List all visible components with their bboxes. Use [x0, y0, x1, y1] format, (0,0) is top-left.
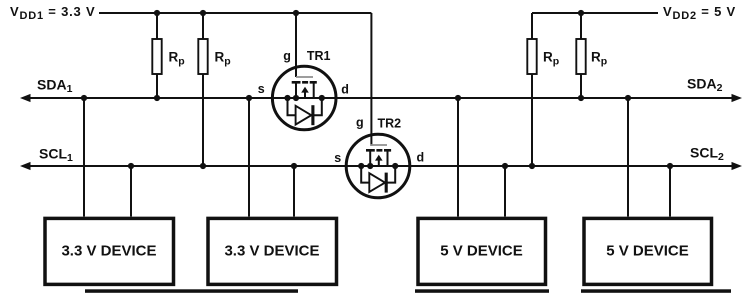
TR1 body circle — [272, 66, 336, 130]
device box 1: 3.3 V DEVICE — [45, 218, 174, 284]
svg-text:g: g — [356, 115, 364, 129]
cropped figure-edge bar A (bottom) — [85, 289, 298, 293]
junction VDD2-Rp4 — [578, 10, 584, 16]
junction Rp2-SCL1 — [200, 163, 206, 169]
junction SDA2 box3 drop — [455, 95, 461, 101]
arrow SDA2 right end — [732, 94, 743, 102]
junction SDA2 box4 drop — [625, 95, 631, 101]
wire VDD2 to Rp4 to SDA2 — [580, 13, 582, 98]
TR2 diode-right junction dot — [392, 163, 398, 169]
svg-text:d: d — [417, 151, 425, 165]
TR1 gate electrode (gray bar) — [296, 76, 313, 78]
wire VDD1 rail to TR2 gate — [370, 13, 372, 146]
TR2 body circle — [346, 134, 410, 198]
TR2 channel segments — [366, 149, 391, 152]
svg-text:TR1: TR1 — [307, 49, 331, 63]
wire VDD1 to Rp1 to SDA1 — [156, 13, 158, 98]
device box 3: 5 V DEVICE — [418, 218, 546, 284]
TR1 body-diode loop — [288, 98, 322, 115]
wire SDA1 to device box 1 — [83, 98, 85, 217]
TR1 body-diode triangle — [296, 106, 312, 125]
TR2 source tick — [369, 150, 371, 166]
wire SDA bus — [28, 97, 734, 99]
junction VDD1 TR1-gate — [293, 10, 299, 16]
TR2 body-diode cathode bar — [385, 173, 388, 193]
TR1 source tick — [295, 82, 297, 98]
resistor Rp4 — [576, 39, 585, 74]
junction SCL2 box3 drop — [502, 163, 508, 169]
junction SDA1 box1 drop — [81, 95, 87, 101]
wire SCL2 to device box 4 — [669, 166, 671, 217]
device box 2: 3.3 V DEVICE — [208, 218, 337, 284]
transistor TR1 (MOSFET, SDA level shifter) — [272, 66, 336, 130]
wire VDD1 to Rp2 to SCL1 — [202, 13, 204, 166]
TR1 source junction dot — [293, 95, 299, 101]
svg-text:TR2: TR2 — [378, 117, 402, 131]
TR2 gate electrode (gray bar) — [370, 144, 387, 146]
junction VDD1-Rp2 — [200, 10, 206, 16]
resistor Rp3 — [527, 39, 536, 74]
wire SCL1 to device box 2 — [293, 166, 295, 217]
junction Rp1-SDA1 — [154, 95, 160, 101]
TR1 drain tick — [313, 82, 315, 98]
junction VDD1-Rp1 — [154, 10, 160, 16]
device box 4: 5 V DEVICE — [584, 218, 712, 284]
wire SCL1 to device box 1 — [130, 166, 132, 217]
TR2 drain tick — [387, 150, 389, 166]
TR2 diode-left junction dot — [358, 163, 364, 169]
wire SDA1 to device box 2 — [248, 98, 250, 217]
svg-text:d: d — [341, 82, 349, 96]
junction SCL2 box4 drop — [667, 163, 673, 169]
junction SCL1 box1 drop — [128, 163, 134, 169]
svg-text:3.3 V DEVICE: 3.3 V DEVICE — [61, 243, 156, 260]
transistor TR2 (MOSFET, SCL level shifter) — [346, 134, 410, 198]
TR1 diode-left junction dot — [284, 95, 290, 101]
wire SDA2 to device box 4 — [627, 98, 629, 217]
wire SDA2 to device box 3 — [457, 98, 459, 217]
svg-text:g: g — [283, 49, 291, 63]
svg-text:3.3 V DEVICE: 3.3 V DEVICE — [224, 243, 319, 260]
TR1 body arrow (points up to channel) — [301, 87, 309, 93]
wire VDD2 rail — [532, 12, 658, 14]
TR1 diode-right junction dot — [319, 95, 325, 101]
cropped figure-edge bar B (bottom) — [415, 289, 549, 293]
resistor Rp2 — [198, 39, 207, 74]
svg-text:s: s — [334, 151, 341, 165]
wire VDD1 rail to TR1 gate — [295, 13, 297, 77]
TR2 body-diode triangle — [369, 173, 385, 192]
arrow SCL2 right end — [732, 162, 743, 170]
junction Rp3-SCL2 — [529, 163, 535, 169]
TR2 body-diode loop — [361, 166, 395, 183]
svg-text:5 V DEVICE: 5 V DEVICE — [440, 243, 523, 260]
wire SCL bus — [28, 165, 734, 167]
TR2 source junction dot — [367, 163, 373, 169]
junction Rp4-SDA2 — [578, 95, 584, 101]
TR2 body arrow — [375, 155, 383, 161]
wire VDD2 to Rp3 to SCL2 — [531, 13, 533, 166]
junction SDA1 box2 drop — [246, 95, 252, 101]
svg-text:5 V DEVICE: 5 V DEVICE — [606, 243, 689, 260]
resistor Rp1 — [152, 39, 161, 74]
cropped figure-edge bar C (bottom) — [581, 289, 731, 293]
TR1 channel segments — [292, 81, 317, 84]
wire SCL2 to device box 3 — [504, 166, 506, 217]
svg-text:s: s — [258, 82, 265, 96]
arrow SCL1 left end — [20, 162, 31, 170]
wire VDD1 rail — [99, 12, 371, 14]
TR1 body-diode cathode bar — [311, 105, 314, 125]
junction SCL1 box2 drop — [291, 163, 297, 169]
arrow SDA1 left end — [20, 94, 31, 102]
